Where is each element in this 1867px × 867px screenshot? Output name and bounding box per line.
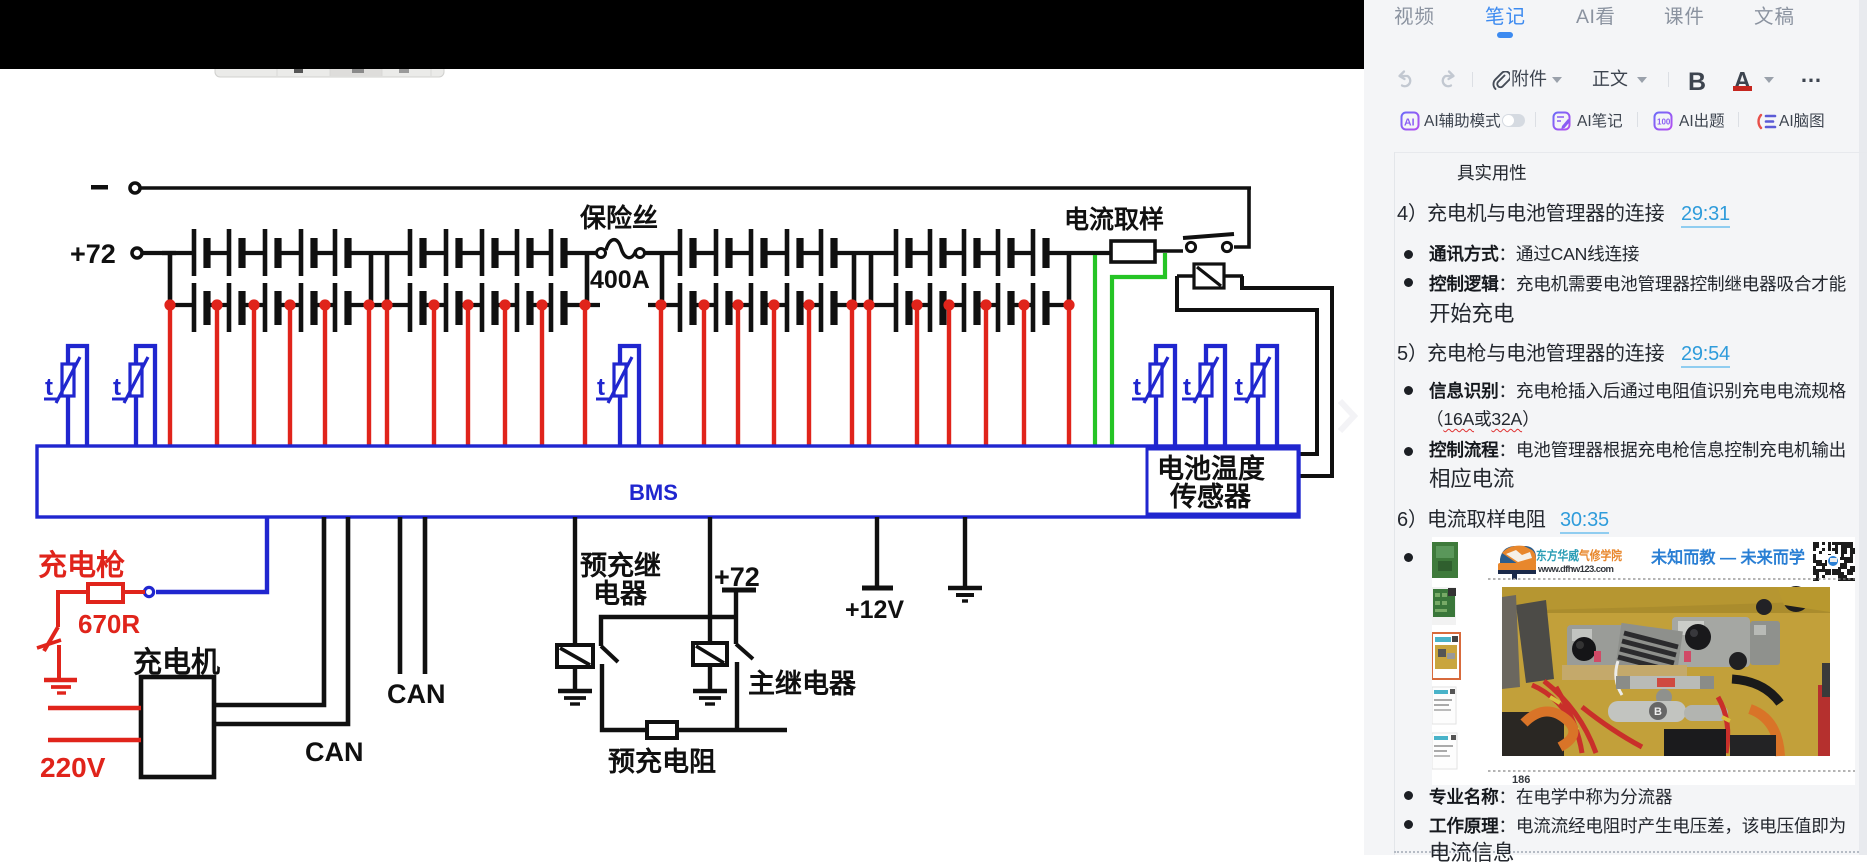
wire: voltage sense lead S14 to BMS — [702, 305, 706, 446]
junction: cell tap node J8 — [428, 299, 439, 310]
battery cell B38 (bottom row) — [964, 283, 977, 332]
ground: pre-charge relay coil — [558, 691, 592, 704]
junction: cell tap node J7 — [381, 299, 392, 310]
switch: K1 contact blade — [601, 646, 618, 662]
wire: series link left end — [168, 253, 173, 305]
battery cell B2 (top row) — [229, 229, 242, 276]
icon: AI assist mode — [1402, 113, 1419, 130]
battery cell B19 (top row) — [998, 229, 1011, 276]
svg-text:t: t — [1235, 374, 1243, 401]
junction: cell tap node J10 — [499, 299, 510, 310]
wire: negative bus right drop — [1234, 188, 1249, 247]
junction: cell tap node J5 — [319, 299, 330, 310]
svg-text:400A: 400A — [590, 266, 650, 294]
wire: voltage sense lead S23 to BMS — [1022, 305, 1026, 446]
wire: voltage sense lead S21 to BMS — [947, 305, 951, 446]
wire: voltage sense lead S9 to BMS — [466, 305, 470, 446]
wire: +72 to main relay contact — [734, 590, 738, 644]
video letterbox black bar — [0, 0, 1364, 69]
svg-text:220V: 220V — [40, 752, 106, 783]
junction: cell tap node J18 — [846, 299, 857, 310]
resistor: current sampling shunt — [1111, 241, 1155, 262]
wire: charger CAN-L to BMS — [214, 517, 348, 724]
svg-text:t: t — [113, 374, 121, 401]
junction: cell tap node J21 — [943, 299, 954, 310]
svg-text:主继电器: 主继电器 — [748, 668, 857, 699]
battery cell B4 (top row) — [301, 229, 314, 276]
box: 电池温度传感器 label — [1147, 449, 1298, 514]
svg-text:+72: +72 — [70, 239, 116, 269]
ground: main relay coil — [693, 691, 727, 704]
wire: BMS ground lead — [963, 517, 967, 588]
ground: charging gun earth (red) — [44, 680, 77, 693]
wire: voltage sense lead S1 to BMS — [168, 305, 172, 446]
wire: 220V mains N — [48, 738, 141, 742]
wire: BMS +12V supply — [875, 517, 879, 588]
svg-text:t: t — [1183, 374, 1191, 401]
wire: voltage sense lead S22 to BMS — [984, 305, 988, 446]
junction: cell tap node J2 — [211, 299, 222, 310]
switch: charge disconnect contact — [1183, 234, 1234, 252]
svg-text:充电枪: 充电枪 — [38, 548, 125, 582]
battery cell B23 (bottom row) — [265, 283, 278, 332]
junction: cell tap node J24 — [1063, 299, 1074, 310]
battery cell B10 (top row) — [551, 229, 564, 276]
overlay: faint next arrow — [1340, 401, 1354, 431]
wire: voltage sense lead S4 to BMS — [288, 305, 292, 446]
wire: voltage sense lead S13 to BMS — [659, 305, 663, 446]
battery cell B5 (top row) — [335, 229, 348, 276]
battery cell B37 (bottom row) — [930, 283, 943, 332]
junction: cell tap node J6 — [363, 299, 374, 310]
svg-text:预充电阻: 预充电阻 — [608, 746, 716, 777]
wire: K1 coil to ground — [573, 667, 577, 691]
battery cell B15 (top row) — [821, 229, 834, 276]
wire: shunt to switch — [1155, 249, 1183, 253]
junction: cell tap node J11 — [536, 299, 547, 310]
svg-text:t: t — [45, 374, 53, 401]
wire: series link mid-right a — [852, 253, 857, 305]
svg-text:未知而教 — 未来而学: 未知而教 — 未来而学 — [1651, 547, 1805, 567]
thermistor RT6 (NTC battery temp sensor) — [1234, 346, 1277, 446]
wire: series link post-fuse — [660, 253, 665, 305]
battery cell B30 (bottom row) — [551, 283, 564, 332]
resistor R1 670R (gun identification) — [88, 584, 123, 602]
battery cell B20 (top row) — [1033, 229, 1046, 276]
icon: AI mindmap — [1759, 115, 1761, 128]
battery cell B36 (bottom row) — [896, 283, 909, 332]
icon: AI quiz (100) — [1655, 113, 1672, 130]
battery cell B26 (bottom row) — [410, 283, 423, 332]
battery cell B1 (top row) — [194, 229, 207, 276]
wire: voltage sense lead S3 to BMS — [252, 305, 256, 446]
battery cell B33 (bottom row) — [751, 283, 764, 332]
terminal: +12V bar — [862, 586, 893, 591]
junction: cell tap node J1 — [164, 299, 175, 310]
svg-text:100: 100 — [1657, 118, 1671, 127]
junction: cell tap node J13 — [655, 299, 666, 310]
svg-text:电池温度: 电池温度 — [1157, 453, 1265, 484]
thermistor RT4 (NTC battery temp sensor) — [1132, 346, 1175, 446]
thermistor RT2 (NTC battery temp sensor) — [112, 346, 155, 446]
label: 预充继电器 — [580, 550, 661, 609]
thermistor RT1 (NTC battery temp sensor) — [44, 346, 87, 446]
junction: cell tap node J15 — [732, 299, 743, 310]
wire: series link pre-fuse — [585, 253, 590, 305]
junction: cell tap node J16 — [768, 299, 779, 310]
battery cell B22 (bottom row) — [229, 283, 242, 332]
partially hidden floating toolbar — [215, 50, 444, 77]
battery cell B34 (bottom row) — [787, 283, 800, 332]
svg-text:CAN: CAN — [387, 679, 446, 709]
wire: series link mid-left a — [369, 253, 374, 305]
svg-text:保险丝: 保险丝 — [579, 203, 658, 233]
wire: CAN bus stub L — [423, 517, 428, 674]
icon: AI notes — [1554, 113, 1570, 130]
wire: battery string bottom-row interconnects — [170, 303, 1069, 307]
wire: CAN bus stub H — [398, 517, 403, 674]
switch: K2 main relay contact blade — [736, 644, 753, 659]
battery cell B21 (bottom row) — [194, 283, 207, 332]
svg-text:186: 186 — [1512, 774, 1530, 785]
svg-text:B: B — [1654, 706, 1662, 718]
battery cell B6 (top row) — [410, 229, 423, 276]
junction: cell tap node J9 — [462, 299, 473, 310]
relay K3 contact (current sampling relay) — [1177, 264, 1243, 288]
wire: voltage sense lead S20 to BMS — [915, 305, 919, 446]
battery cell B14 (top row) — [787, 229, 800, 276]
svg-text:CAN: CAN — [305, 737, 364, 767]
battery cell B8 (top row) — [482, 229, 495, 276]
ground: BMS chassis ground — [948, 588, 982, 601]
wire: relay K3 right lead to BMS — [1242, 276, 1332, 476]
wire: shunt sense green 2 — [1112, 253, 1165, 446]
resistor R2 pre-charge 预充电阻 — [647, 722, 677, 738]
wire: voltage sense lead S17 to BMS — [807, 305, 811, 446]
wire: +72 to battery string — [143, 251, 176, 255]
node: +72 terminal circle — [132, 248, 142, 258]
battery cell B32 (bottom row) — [716, 283, 729, 332]
battery cell B16 (top row) — [896, 229, 909, 276]
wire: voltage sense lead S5 to BMS — [323, 305, 327, 446]
thermistor RT5 (NTC battery temp sensor) — [1182, 346, 1225, 446]
wire: voltage sense lead S12 to BMS — [583, 305, 587, 446]
svg-text:东方华威气修学院: 东方华威气修学院 — [1536, 548, 1622, 563]
wire: BMS to main relay coil — [708, 517, 712, 643]
wire: relay K3 left lead to BMS — [1177, 276, 1317, 454]
battery cell B28 (bottom row) — [482, 283, 495, 332]
wire: K2 coil to ground — [708, 665, 712, 691]
junction: cell tap node J3 — [248, 299, 259, 310]
battery cell B24 (bottom row) — [301, 283, 314, 332]
fuse F1 保险丝 400A — [597, 240, 645, 258]
svg-text:充电机: 充电机 — [133, 646, 220, 679]
battery cell B13 (top row) — [751, 229, 764, 276]
battery cell B35 (bottom row) — [821, 283, 834, 332]
wire: negative bus (top) — [141, 186, 1251, 190]
wire: voltage sense lead S19 to BMS — [867, 305, 871, 446]
svg-text:AI: AI — [1404, 117, 1415, 129]
wire: 220V mains L — [48, 706, 141, 710]
svg-text:+12V: +12V — [845, 596, 904, 624]
wire: pre-charge resistor return — [677, 728, 787, 732]
svg-text:www.dfhw123.com: www.dfhw123.com — [1537, 564, 1614, 575]
terminal: +72 supply bar — [722, 588, 756, 593]
svg-text:BMS: BMS — [629, 480, 678, 505]
relay K2 coil (main relay 主继电器) — [693, 643, 727, 665]
svg-text:传感器: 传感器 — [1169, 481, 1252, 512]
battery cell B17 (top row) — [930, 229, 943, 276]
wire: voltage sense lead S6 to BMS — [367, 305, 371, 446]
wire: K1 contact to pre-charge resistor — [602, 664, 647, 730]
svg-text:670R: 670R — [78, 609, 140, 639]
thermistor RT3 (NTC battery temp sensor) — [596, 346, 639, 446]
wire: voltage sense lead S2 to BMS — [215, 305, 219, 446]
wire: voltage sense lead S16 to BMS — [772, 305, 776, 446]
junction: cell tap node J22 — [980, 299, 991, 310]
relay K1 coil (pre-charge relay) — [557, 645, 593, 667]
battery cell B9 (top row) — [517, 229, 530, 276]
node: negative terminal circle — [130, 183, 140, 193]
battery cell B7 (top row) — [446, 229, 459, 276]
wire: voltage sense lead S7 to BMS — [385, 305, 389, 446]
wire: series link right end — [1067, 253, 1072, 305]
svg-text:t: t — [1133, 374, 1141, 401]
junction: cell tap node J23 — [1018, 299, 1029, 310]
wire: voltage sense lead S10 to BMS — [503, 305, 507, 446]
wire: series link mid-left b — [385, 253, 390, 305]
battery cell B25 (bottom row) — [335, 283, 348, 332]
junction: cell tap node J12 — [579, 299, 590, 310]
battery cell B12 (top row) — [716, 229, 729, 276]
wire: K2 contact to pre-charge loop — [735, 662, 739, 730]
svg-text:电流取样: 电流取样 — [1064, 205, 1164, 234]
wire: shunt sense green 1 — [1093, 255, 1097, 446]
battery cell B39 (bottom row) — [998, 283, 1011, 332]
wire: +72 feed rail — [601, 617, 736, 646]
wire: voltage sense lead S11 to BMS — [540, 305, 544, 446]
node: charging gun signal terminal — [144, 587, 153, 596]
battery cell B31 (bottom row) — [680, 283, 693, 332]
svg-text:t: t — [597, 374, 605, 401]
wire: BMS to pre-charge relay coil — [573, 517, 577, 645]
battery cell B18 (top row) — [964, 229, 977, 276]
wire: voltage sense lead S18 to BMS — [850, 305, 854, 446]
svg-text:预充继: 预充继 — [580, 550, 661, 581]
box: charger 充电机 — [141, 677, 214, 777]
battery cell B11 (top row) — [680, 229, 693, 276]
wire: voltage sense lead S24 to BMS — [1067, 305, 1071, 446]
svg-text:电器: 电器 — [593, 579, 648, 609]
battery cell B27 (bottom row) — [446, 283, 459, 332]
label: minus terminal — [91, 185, 108, 190]
junction: cell tap node J17 — [803, 299, 814, 310]
IC U1: BMS controller box — [37, 446, 1299, 517]
wire: charger CAN-H to BMS — [214, 517, 324, 705]
wire: gun resistor leads (red) — [123, 590, 145, 594]
battery cell B40 (bottom row) — [1033, 283, 1046, 332]
connector: charging gun plug symbol — [37, 627, 61, 680]
wire: series link mid-right b — [869, 253, 874, 305]
junction: cell tap node J14 — [698, 299, 709, 310]
wire: voltage sense lead S15 to BMS — [736, 305, 740, 446]
wire: battery string top-row interconnects — [162, 251, 1111, 255]
junction: cell tap node J20 — [911, 299, 922, 310]
battery cell B29 (bottom row) — [517, 283, 530, 332]
junction: cell tap node J4 — [284, 299, 295, 310]
wire: voltage sense lead S8 to BMS — [432, 305, 436, 446]
wire: charging gun signal (blue) from BMS — [156, 517, 267, 592]
junction: cell tap node J19 — [863, 299, 874, 310]
battery cell B3 (top row) — [265, 229, 278, 276]
